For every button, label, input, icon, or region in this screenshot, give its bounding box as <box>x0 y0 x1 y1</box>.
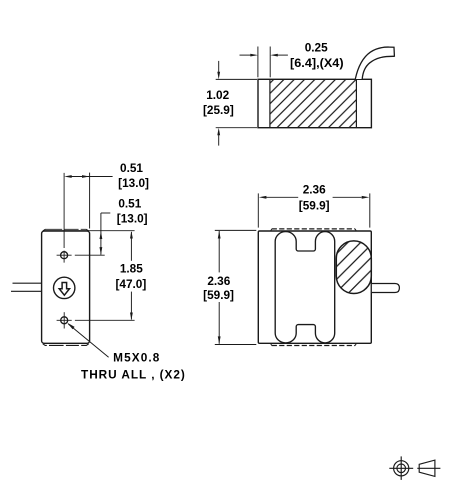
arrow up tip at top edge ext <box>100 231 103 239</box>
symbol crosshair vertical <box>400 456 402 480</box>
body outline front view <box>258 231 371 343</box>
svg-text:0.51: 0.51 <box>118 196 141 210</box>
top plate chamfer line <box>43 229 89 231</box>
arrow left tip at hole centerline <box>64 175 72 178</box>
top plate strip front <box>271 229 357 231</box>
extension line <box>257 47 259 78</box>
svg-text:M5X0.8: M5X0.8 <box>113 350 160 364</box>
bottom hole centerline horizontal <box>57 319 135 321</box>
down arrow inside circle <box>59 283 69 296</box>
dim line lower segment <box>130 292 132 320</box>
extension line right <box>369 193 371 227</box>
svg-text:[13.0]: [13.0] <box>117 212 148 226</box>
hatched plate region <box>270 80 357 127</box>
cable (top view) <box>355 47 394 79</box>
arrow up tip 1.85 <box>130 231 133 239</box>
dim line upper segment <box>130 232 132 261</box>
plate left edge line <box>269 79 271 127</box>
svg-text:2.36: 2.36 <box>207 274 230 288</box>
bottom plate strip front <box>271 344 357 346</box>
svg-text:[6.4],(X4): [6.4],(X4) <box>290 56 344 70</box>
top edge extension line <box>43 230 135 232</box>
leader/dim vertical <box>100 213 102 255</box>
svg-text:0.51: 0.51 <box>120 161 143 175</box>
leader horizontal <box>101 212 110 214</box>
leader M5X0.8 <box>68 324 108 357</box>
dim line left segment <box>266 196 299 198</box>
symbol inner circle <box>397 464 406 473</box>
extension line <box>269 47 271 78</box>
hatched connector boss (ellipse) <box>336 241 371 294</box>
dim line lower segment <box>218 302 220 344</box>
arrow down tip at hole line <box>100 247 103 255</box>
arrow shaft top <box>218 61 220 72</box>
extension line right edge <box>89 173 91 229</box>
body outline left view <box>42 231 90 343</box>
top strip dashes front <box>272 228 356 230</box>
svg-text:THRU ALL , (X2): THRU ALL , (X2) <box>81 367 186 381</box>
dimension 0.51 [13.0] horizontal (hole to right edge) <box>71 173 113 229</box>
svg-text:1.85: 1.85 <box>120 262 143 276</box>
arrow down tip 2.36 v <box>218 336 221 344</box>
top hole centerline vertical / extension <box>63 173 65 263</box>
extension line top <box>216 78 257 80</box>
dim line upper segment <box>218 231 220 272</box>
dim line right segment <box>333 196 362 198</box>
extension line bottom <box>215 344 256 346</box>
top hole M5 <box>61 252 68 259</box>
symbol crosshair horizontal <box>389 467 413 469</box>
svg-text:[59.9]: [59.9] <box>203 288 234 302</box>
arrow up at 1.02 bottom <box>217 128 220 136</box>
arrow left tip 2.36 h <box>259 196 267 199</box>
svg-text:2.36: 2.36 <box>303 182 326 196</box>
arrow up tip 2.36 v <box>218 231 221 239</box>
arrow down tip 1.85 <box>130 313 133 321</box>
bottom hole centerline vertical <box>63 312 65 328</box>
dimension 0.51 [13.0] vertical (top edge to hole) <box>43 213 135 255</box>
svg-text:0.25: 0.25 <box>305 41 328 55</box>
extension line bottom <box>216 127 257 129</box>
symbol cone trapezoid <box>419 460 435 476</box>
dimension 2.36 [59.9] horizontal <box>258 193 370 227</box>
symbol outer circle <box>394 461 409 476</box>
svg-text:[25.9]: [25.9] <box>203 103 234 117</box>
bottom plate strip <box>43 344 89 346</box>
svg-text:1.02: 1.02 <box>206 88 229 102</box>
arrow right-pointing at 0.25 <box>250 54 258 57</box>
dimension line <box>71 176 113 178</box>
dimension line right w/ arrow <box>277 54 288 56</box>
arrow right tip 2.36 h <box>362 196 370 199</box>
dimension line left w/ arrow <box>240 54 252 56</box>
orientation arrow circle <box>53 277 74 298</box>
S-beam cutout outline <box>275 232 335 343</box>
arrow right tip at edge line <box>82 175 90 178</box>
plate right edge line <box>355 79 357 127</box>
dimension 2.36 [59.9] vertical <box>215 230 256 344</box>
body outline top view <box>258 79 371 127</box>
cable wire lower <box>11 290 42 292</box>
dimension 0.25 [6.4],(X4) <box>240 47 288 78</box>
arrow shaft bottom <box>218 135 220 146</box>
cable stub right <box>372 284 400 293</box>
bottom hole M5 <box>61 317 68 324</box>
arrow down at 1.02 top <box>217 72 220 80</box>
extension line left <box>257 193 259 227</box>
arrow left-pointing at 0.25 <box>270 54 278 57</box>
extension line top <box>215 229 256 231</box>
svg-text:[47.0]: [47.0] <box>115 277 146 291</box>
leader arrowhead at hole <box>67 323 74 330</box>
bottom strip dashes front <box>272 345 356 347</box>
dimension 1.02 [25.9] <box>216 61 257 146</box>
symbol cone centerline <box>417 467 440 469</box>
top hole centerline horizontal <box>57 254 105 256</box>
cable wire upper <box>13 282 42 284</box>
dimension 1.85 [47.0] vertical <box>130 232 132 320</box>
svg-text:[13.0]: [13.0] <box>118 176 149 190</box>
svg-text:[59.9]: [59.9] <box>299 199 330 213</box>
